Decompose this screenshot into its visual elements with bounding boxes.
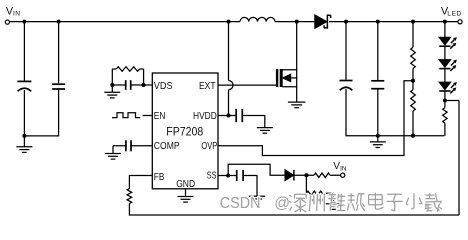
svg-text:HVDD: HVDD xyxy=(193,110,217,122)
svg-text:SS: SS xyxy=(207,169,217,181)
svg-text:VDS: VDS xyxy=(154,80,173,92)
svg-text:COMP: COMP xyxy=(154,140,180,152)
svg-text:CSDN: CSDN xyxy=(220,195,261,212)
svg-text:IN: IN xyxy=(340,166,347,173)
svg-text:EN: EN xyxy=(154,110,166,122)
svg-text:@: @ xyxy=(274,195,290,212)
svg-text:IN: IN xyxy=(13,11,20,18)
svg-text:OVP: OVP xyxy=(201,140,217,152)
svg-text:LED: LED xyxy=(447,11,462,18)
svg-text:EXT: EXT xyxy=(199,80,216,92)
svg-text:FP7208: FP7208 xyxy=(166,125,203,139)
svg-text:FB: FB xyxy=(154,171,165,183)
svg-text:GND: GND xyxy=(176,178,195,190)
